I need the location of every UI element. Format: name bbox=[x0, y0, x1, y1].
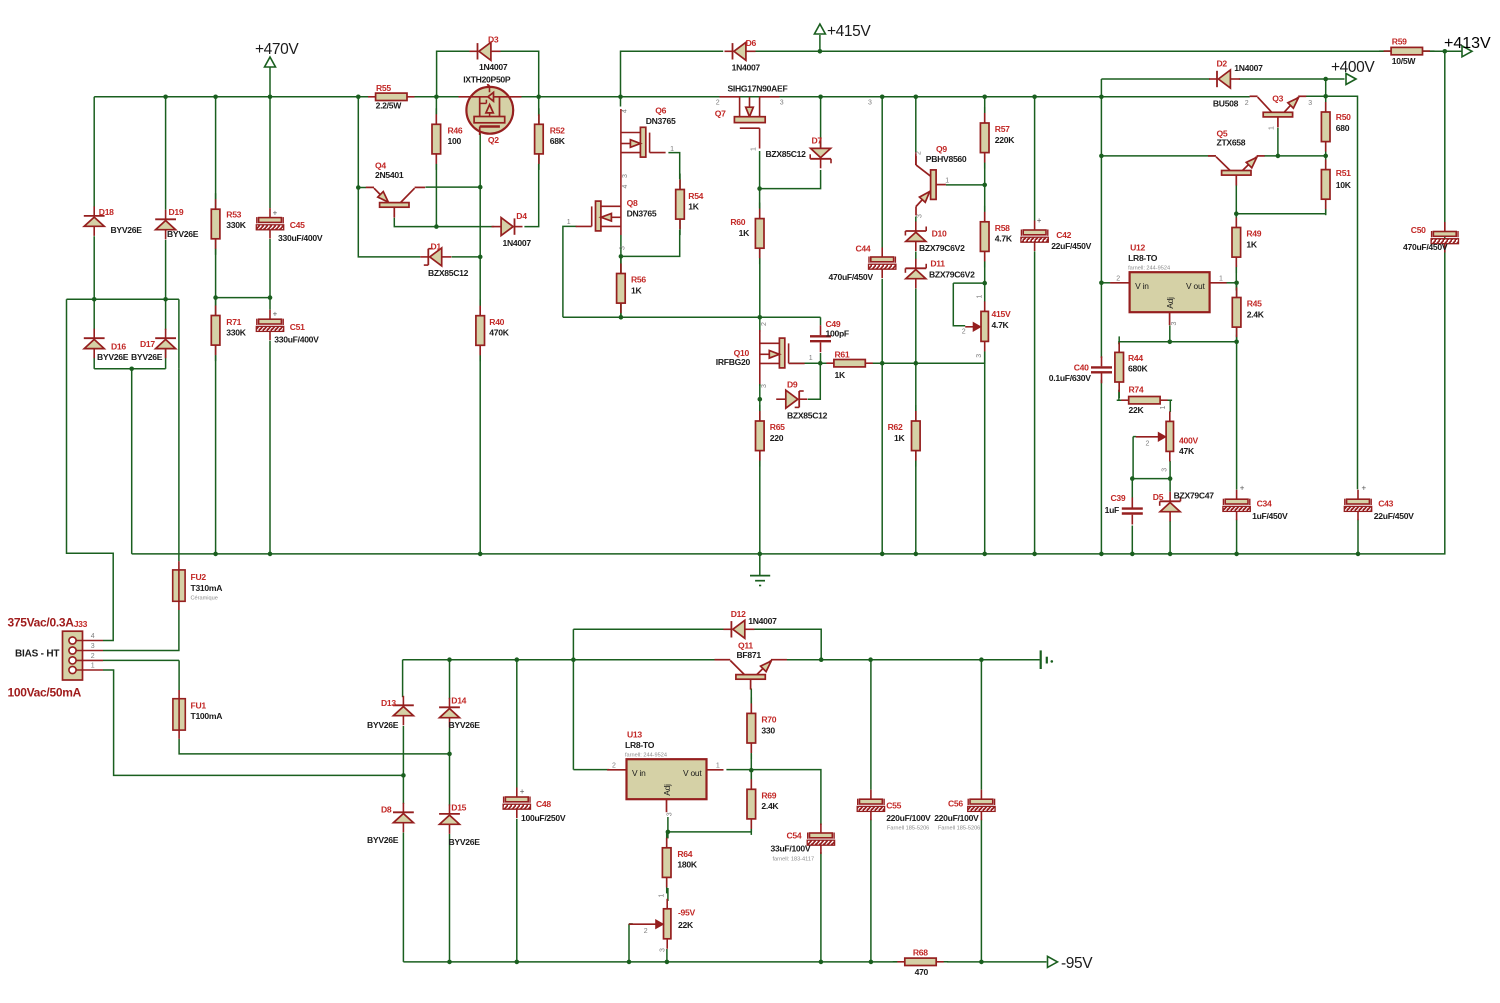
svg-text:10/5W: 10/5W bbox=[1392, 56, 1417, 66]
svg-text:22K: 22K bbox=[1129, 405, 1145, 415]
svg-text:2.2/5W: 2.2/5W bbox=[376, 101, 403, 111]
svg-text:DN3765: DN3765 bbox=[646, 116, 676, 126]
svg-text:R58: R58 bbox=[995, 223, 1010, 233]
svg-text:C40: C40 bbox=[1074, 363, 1089, 373]
svg-text:FU1: FU1 bbox=[191, 701, 207, 711]
svg-text:D18: D18 bbox=[99, 207, 114, 217]
svg-text:Q2: Q2 bbox=[488, 135, 499, 145]
svg-text:375Vac/0.3A: 375Vac/0.3A bbox=[8, 616, 75, 630]
svg-text:1: 1 bbox=[1219, 275, 1223, 282]
svg-text:+: + bbox=[273, 310, 278, 319]
svg-text:SIHG17N90AEF: SIHG17N90AEF bbox=[728, 84, 788, 94]
svg-text:22uF/450V: 22uF/450V bbox=[1051, 241, 1091, 251]
svg-text:4.7K: 4.7K bbox=[992, 320, 1010, 330]
svg-text:BYV26E: BYV26E bbox=[449, 837, 481, 847]
svg-text:470uF/450V: 470uF/450V bbox=[829, 272, 874, 282]
svg-text:BZX79C6V2: BZX79C6V2 bbox=[919, 243, 965, 253]
svg-text:BYV26E: BYV26E bbox=[131, 352, 163, 362]
svg-text:BZX79C6V2: BZX79C6V2 bbox=[929, 270, 975, 280]
svg-text:Farnell 185-5206: Farnell 185-5206 bbox=[887, 826, 929, 832]
svg-text:22uF/450V: 22uF/450V bbox=[1374, 511, 1414, 521]
svg-text:2: 2 bbox=[612, 763, 616, 770]
svg-text:220uF/100V: 220uF/100V bbox=[886, 813, 931, 823]
svg-text:C54: C54 bbox=[787, 831, 802, 841]
svg-text:4: 4 bbox=[91, 633, 95, 640]
svg-text:D16: D16 bbox=[111, 342, 126, 352]
svg-text:R52: R52 bbox=[550, 126, 565, 136]
svg-text:680: 680 bbox=[1336, 123, 1350, 133]
svg-text:D17: D17 bbox=[140, 339, 155, 349]
svg-text:2: 2 bbox=[962, 329, 966, 336]
svg-text:1N4007: 1N4007 bbox=[503, 238, 532, 248]
svg-text:Farnell 185-5206: Farnell 185-5206 bbox=[938, 826, 980, 832]
svg-text:1K: 1K bbox=[688, 202, 699, 212]
svg-text:D19: D19 bbox=[169, 207, 184, 217]
svg-text:BYV26E: BYV26E bbox=[449, 720, 481, 730]
svg-text:330K: 330K bbox=[226, 220, 246, 230]
svg-text:+415V: +415V bbox=[827, 23, 871, 40]
svg-text:D7: D7 bbox=[812, 135, 823, 145]
svg-text:BZX85C12: BZX85C12 bbox=[428, 268, 469, 278]
svg-text:33uF/100V: 33uF/100V bbox=[771, 844, 811, 854]
svg-text:C55: C55 bbox=[886, 800, 901, 810]
svg-text:+: + bbox=[1037, 216, 1042, 225]
svg-text:220uF/100V: 220uF/100V bbox=[934, 813, 979, 823]
svg-text:1: 1 bbox=[809, 355, 813, 362]
svg-text:C48: C48 bbox=[536, 799, 551, 809]
svg-text:1K: 1K bbox=[631, 285, 642, 295]
svg-text:1: 1 bbox=[716, 763, 720, 770]
svg-text:3: 3 bbox=[1308, 100, 1312, 107]
svg-text:22K: 22K bbox=[678, 920, 694, 930]
svg-text:470: 470 bbox=[915, 967, 929, 977]
svg-text:2: 2 bbox=[644, 928, 648, 935]
svg-text:R62: R62 bbox=[888, 422, 903, 432]
svg-text:1uF: 1uF bbox=[1105, 505, 1119, 515]
svg-text:IRFBG20: IRFBG20 bbox=[716, 357, 751, 367]
svg-text:1: 1 bbox=[945, 178, 949, 185]
svg-text:Q9: Q9 bbox=[936, 144, 947, 154]
svg-text:Q4: Q4 bbox=[375, 161, 386, 171]
svg-text:R45: R45 bbox=[1247, 299, 1262, 309]
svg-text:330K: 330K bbox=[226, 328, 246, 338]
svg-text:R49: R49 bbox=[1246, 229, 1261, 239]
svg-text:BU508: BU508 bbox=[1213, 99, 1239, 109]
svg-text:R55: R55 bbox=[376, 83, 391, 93]
svg-text:R53: R53 bbox=[226, 210, 241, 220]
svg-text:470K: 470K bbox=[489, 328, 509, 338]
svg-text:BYV26E: BYV26E bbox=[111, 225, 143, 235]
svg-text:D11: D11 bbox=[930, 259, 945, 269]
svg-text:1K: 1K bbox=[739, 228, 750, 238]
svg-text:3: 3 bbox=[660, 948, 667, 952]
svg-text:Q6: Q6 bbox=[655, 105, 666, 115]
svg-text:4: 4 bbox=[622, 185, 629, 189]
svg-text:R54: R54 bbox=[688, 191, 703, 201]
svg-text:Q11: Q11 bbox=[738, 641, 753, 651]
svg-text:470uF/450V: 470uF/450V bbox=[1403, 242, 1448, 252]
svg-text:V in: V in bbox=[632, 768, 646, 778]
svg-text:3: 3 bbox=[1161, 468, 1168, 472]
svg-text:+413V: +413V bbox=[1444, 35, 1491, 52]
svg-text:2.4K: 2.4K bbox=[761, 801, 779, 811]
svg-text:-95V: -95V bbox=[1061, 955, 1093, 972]
svg-text:R69: R69 bbox=[761, 791, 776, 801]
svg-text:1N4007: 1N4007 bbox=[748, 616, 777, 626]
svg-text:C34: C34 bbox=[1257, 499, 1272, 509]
svg-text:farnell: 183-4117: farnell: 183-4117 bbox=[773, 857, 815, 863]
svg-text:2: 2 bbox=[916, 151, 923, 155]
svg-text:C45: C45 bbox=[290, 220, 305, 230]
svg-text:-95V: -95V bbox=[678, 907, 696, 917]
svg-text:R40: R40 bbox=[489, 317, 504, 327]
svg-text:+: + bbox=[1362, 484, 1367, 493]
svg-text:ZTX658: ZTX658 bbox=[1217, 138, 1246, 148]
svg-text:LR8-TO: LR8-TO bbox=[625, 740, 655, 750]
svg-text:3: 3 bbox=[622, 174, 629, 178]
svg-text:D2: D2 bbox=[1217, 59, 1228, 69]
svg-text:1: 1 bbox=[567, 219, 571, 226]
svg-text:BIAS - HT: BIAS - HT bbox=[15, 648, 59, 659]
svg-text:0.1uF/630V: 0.1uF/630V bbox=[1049, 373, 1091, 383]
svg-text:BYV26E: BYV26E bbox=[367, 835, 399, 845]
svg-text:J33: J33 bbox=[74, 619, 88, 629]
svg-text:4: 4 bbox=[621, 109, 628, 113]
svg-text:R57: R57 bbox=[995, 124, 1010, 134]
svg-text:D4: D4 bbox=[516, 211, 527, 221]
svg-text:3: 3 bbox=[620, 246, 627, 250]
svg-text:R65: R65 bbox=[770, 422, 785, 432]
svg-text:farnell: 244-9524: farnell: 244-9524 bbox=[1128, 265, 1170, 271]
svg-text:R46: R46 bbox=[448, 126, 463, 136]
svg-text:C56: C56 bbox=[948, 799, 963, 809]
svg-text:100uF/250V: 100uF/250V bbox=[521, 813, 566, 823]
svg-text:V in: V in bbox=[1135, 281, 1149, 291]
svg-text:2: 2 bbox=[91, 653, 95, 660]
svg-text:R64: R64 bbox=[677, 849, 692, 859]
svg-text:3: 3 bbox=[91, 643, 95, 650]
svg-text:Q7: Q7 bbox=[715, 109, 726, 119]
svg-text:1: 1 bbox=[1160, 406, 1167, 410]
svg-text:+470V: +470V bbox=[255, 41, 299, 58]
svg-text:farnell: 244-9524: farnell: 244-9524 bbox=[625, 752, 667, 758]
svg-text:3: 3 bbox=[1171, 322, 1178, 326]
svg-text:+: + bbox=[273, 209, 278, 218]
svg-text:Q8: Q8 bbox=[627, 198, 638, 208]
svg-text:330uF/400V: 330uF/400V bbox=[278, 233, 323, 243]
svg-text:47K: 47K bbox=[1179, 446, 1195, 456]
svg-text:LR8-TO: LR8-TO bbox=[1128, 253, 1158, 263]
svg-text:68K: 68K bbox=[550, 136, 566, 146]
svg-text:U12: U12 bbox=[1130, 243, 1145, 253]
svg-text:220K: 220K bbox=[995, 135, 1015, 145]
svg-text:T100mA: T100mA bbox=[191, 711, 223, 721]
svg-text:2: 2 bbox=[1116, 276, 1120, 283]
svg-text:1: 1 bbox=[1268, 126, 1275, 130]
svg-text:U13: U13 bbox=[627, 730, 642, 740]
svg-text:2: 2 bbox=[716, 99, 720, 106]
svg-text:1uF/450V: 1uF/450V bbox=[1252, 511, 1288, 521]
svg-text:3: 3 bbox=[917, 214, 924, 218]
svg-text:D1: D1 bbox=[431, 241, 442, 251]
svg-text:1K: 1K bbox=[894, 433, 905, 443]
svg-text:D3: D3 bbox=[488, 35, 499, 45]
svg-text:R74: R74 bbox=[1129, 385, 1144, 395]
svg-text:100pF: 100pF bbox=[826, 329, 849, 339]
svg-text:330uF/400V: 330uF/400V bbox=[274, 334, 319, 344]
svg-text:2: 2 bbox=[761, 322, 768, 326]
svg-text:C51: C51 bbox=[290, 322, 305, 332]
svg-text:2: 2 bbox=[1146, 441, 1150, 448]
svg-text:R56: R56 bbox=[631, 275, 646, 285]
svg-text:Q3: Q3 bbox=[1272, 94, 1283, 104]
svg-text:D6: D6 bbox=[746, 38, 757, 48]
svg-text:R59: R59 bbox=[1392, 37, 1407, 47]
svg-text:BYV26E: BYV26E bbox=[367, 720, 399, 730]
svg-text:D13: D13 bbox=[381, 698, 396, 708]
svg-text:BF871: BF871 bbox=[737, 650, 762, 660]
svg-text:+: + bbox=[520, 787, 525, 796]
svg-text:C43: C43 bbox=[1378, 499, 1393, 509]
svg-text:R61: R61 bbox=[835, 350, 850, 360]
svg-text:2: 2 bbox=[1245, 100, 1249, 107]
svg-text:D9: D9 bbox=[787, 379, 798, 389]
svg-text:R68: R68 bbox=[913, 947, 928, 957]
svg-text:R70: R70 bbox=[761, 715, 776, 725]
svg-text:C42: C42 bbox=[1056, 230, 1071, 240]
svg-text:1N4007: 1N4007 bbox=[732, 63, 761, 73]
svg-text:1: 1 bbox=[659, 894, 666, 898]
svg-text:+: + bbox=[1240, 484, 1245, 493]
svg-text:D14: D14 bbox=[451, 696, 466, 706]
svg-text:D12: D12 bbox=[731, 609, 746, 619]
svg-text:BZX85C12: BZX85C12 bbox=[766, 149, 807, 159]
svg-text:2N5401: 2N5401 bbox=[375, 170, 404, 180]
svg-text:3: 3 bbox=[761, 384, 768, 388]
svg-text:1: 1 bbox=[91, 663, 95, 670]
svg-text:V out: V out bbox=[1186, 281, 1205, 291]
svg-text:D15: D15 bbox=[451, 803, 466, 813]
svg-text:+400V: +400V bbox=[1331, 59, 1375, 76]
svg-text:4.7K: 4.7K bbox=[995, 234, 1013, 244]
svg-text:2.4K: 2.4K bbox=[1247, 309, 1265, 319]
svg-text:10K: 10K bbox=[1336, 180, 1352, 190]
svg-text:400V: 400V bbox=[1179, 436, 1198, 446]
svg-text:3: 3 bbox=[666, 812, 673, 816]
svg-text:C44: C44 bbox=[856, 244, 871, 254]
svg-text:1: 1 bbox=[670, 146, 674, 153]
svg-text:R60: R60 bbox=[730, 217, 745, 227]
svg-text:100Vac/50mA: 100Vac/50mA bbox=[8, 686, 82, 700]
svg-text:BYV26E: BYV26E bbox=[97, 352, 129, 362]
svg-text:BYV26E: BYV26E bbox=[167, 229, 199, 239]
svg-text:FU2: FU2 bbox=[191, 572, 207, 582]
svg-text:100: 100 bbox=[448, 136, 462, 146]
svg-text:1N4007: 1N4007 bbox=[1234, 63, 1263, 73]
svg-text:R51: R51 bbox=[1336, 168, 1351, 178]
svg-text:BZX85C12: BZX85C12 bbox=[787, 411, 828, 421]
svg-text:BZX79C47: BZX79C47 bbox=[1174, 491, 1215, 501]
svg-text:R50: R50 bbox=[1336, 112, 1351, 122]
svg-text:220: 220 bbox=[770, 433, 784, 443]
svg-text:1N4007: 1N4007 bbox=[479, 62, 508, 72]
svg-text:D10: D10 bbox=[932, 229, 947, 239]
svg-text:3: 3 bbox=[976, 354, 983, 358]
svg-text:1K: 1K bbox=[1246, 239, 1257, 249]
svg-text:Adj: Adj bbox=[662, 784, 672, 796]
svg-text:R44: R44 bbox=[1128, 353, 1143, 363]
svg-text:415V: 415V bbox=[992, 309, 1011, 319]
svg-text:R71: R71 bbox=[226, 317, 241, 327]
svg-text:D8: D8 bbox=[381, 805, 392, 815]
svg-text:T310mA: T310mA bbox=[191, 583, 223, 593]
svg-text:Adj: Adj bbox=[1165, 297, 1175, 309]
svg-text:1K: 1K bbox=[835, 370, 846, 380]
svg-text:PBHV8560: PBHV8560 bbox=[926, 154, 967, 164]
svg-text:1: 1 bbox=[977, 295, 984, 299]
svg-text:3: 3 bbox=[868, 99, 872, 106]
svg-text:C39: C39 bbox=[1111, 493, 1126, 503]
svg-text:330: 330 bbox=[761, 725, 775, 735]
svg-text:1: 1 bbox=[750, 147, 757, 151]
svg-text:C50: C50 bbox=[1411, 225, 1426, 235]
svg-text:Céramique: Céramique bbox=[191, 596, 218, 602]
svg-text:680K: 680K bbox=[1128, 364, 1148, 374]
svg-text:D5: D5 bbox=[1153, 492, 1164, 502]
svg-text:180K: 180K bbox=[677, 860, 697, 870]
svg-text:IXTH20P50P: IXTH20P50P bbox=[463, 75, 511, 85]
svg-text:V out: V out bbox=[683, 768, 702, 778]
svg-text:3: 3 bbox=[780, 99, 784, 106]
svg-text:DN3765: DN3765 bbox=[627, 209, 657, 219]
